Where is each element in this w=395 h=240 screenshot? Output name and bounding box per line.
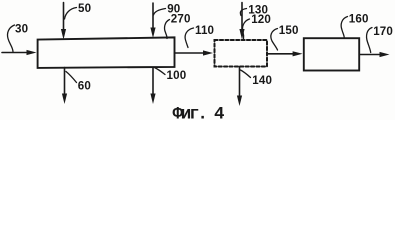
svg-text:60: 60 bbox=[78, 79, 91, 92]
arrowhead: output 170 bbox=[380, 52, 390, 57]
block box 160 (third rectangle) bbox=[304, 38, 359, 70]
leader line for 270 bbox=[165, 20, 170, 39]
wire: arrow box2 to box3 (150) bbox=[267, 53, 294, 55]
svg-text:140: 140 bbox=[252, 74, 272, 87]
svg-text:50: 50 bbox=[78, 2, 91, 15]
arrowhead: input 30 bbox=[27, 50, 37, 55]
svg-text:170: 170 bbox=[373, 25, 393, 38]
leader line for 120 bbox=[243, 19, 250, 39]
arrowhead: 150 bbox=[293, 51, 303, 56]
arrowhead: 140 bbox=[237, 96, 242, 107]
wire: vertical input 90 bbox=[152, 3, 154, 29]
svg-text:160: 160 bbox=[349, 13, 369, 26]
leader line for 100 bbox=[155, 68, 166, 75]
wire: vertical output 140 bbox=[239, 67, 241, 98]
svg-text:150: 150 bbox=[279, 24, 299, 37]
svg-text:30: 30 bbox=[15, 22, 28, 35]
wire: vertical output 60 bbox=[64, 68, 66, 96]
arrowhead: 110 bbox=[203, 50, 213, 55]
block box 30/270 (first rectangle) bbox=[38, 37, 175, 68]
wire: output arrow 170 bbox=[360, 54, 382, 56]
leader line for 160 bbox=[341, 17, 347, 39]
svg-text:Фиг. 4: Фиг. 4 bbox=[173, 105, 225, 121]
leader line for 50 bbox=[65, 8, 77, 20]
arrowhead: 100 bbox=[150, 94, 155, 105]
wire: vertical input 50 bbox=[63, 3, 65, 31]
leader line for 140 bbox=[241, 70, 251, 78]
svg-text:270: 270 bbox=[171, 13, 191, 26]
leader line for 60 bbox=[66, 72, 77, 83]
arrowhead: 130 bbox=[239, 29, 244, 40]
wire: vertical input 130 bbox=[241, 3, 243, 31]
svg-text:110: 110 bbox=[195, 24, 214, 37]
leader line for 30 bbox=[8, 25, 15, 52]
leader line for 150 bbox=[271, 29, 278, 51]
leader line for 90 bbox=[154, 9, 166, 16]
wire: input arrow 30 bbox=[2, 52, 28, 54]
arrowhead: 90 bbox=[150, 28, 155, 39]
wire: vertical output 100 bbox=[152, 68, 154, 96]
arrowhead: 60 bbox=[62, 94, 67, 105]
svg-text:120: 120 bbox=[251, 13, 271, 26]
leader line for 170 bbox=[367, 28, 372, 53]
wire: arrow box1 to box2 (110) bbox=[175, 52, 205, 54]
arrowhead: 50 bbox=[61, 29, 66, 40]
block box 120 (dashed rectangle) bbox=[215, 40, 268, 67]
leader line for 130 bbox=[240, 9, 246, 16]
leader line for 110 bbox=[185, 28, 193, 48]
svg-text:100: 100 bbox=[167, 69, 187, 82]
